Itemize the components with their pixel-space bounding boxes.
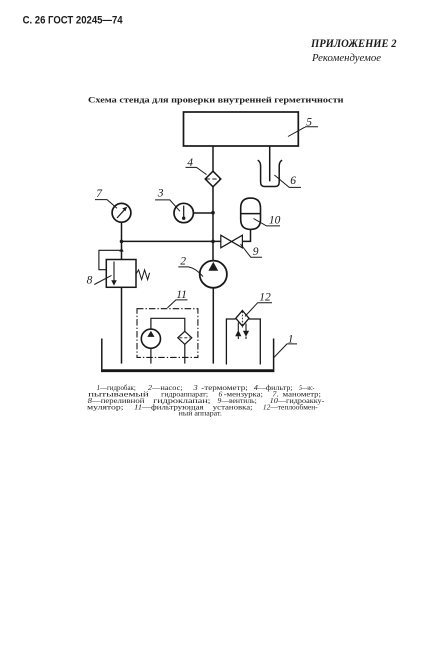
label 4	[187, 157, 193, 169]
heat exchanger H12	[236, 311, 249, 327]
wire rect5 to filter4	[212, 146, 214, 171]
arrows of H12	[237, 323, 239, 340]
label 1	[288, 334, 294, 346]
pump M2	[200, 261, 227, 288]
pressure gauge P7	[112, 203, 131, 222]
wire relief valve to tank	[121, 287, 123, 363]
svg-text:7: 7	[96, 188, 103, 200]
legend text	[87, 383, 325, 418]
label 7	[96, 188, 103, 200]
svg-text:8: 8	[87, 275, 93, 287]
svg-text:ПРИЛОЖЕНИЕ 2: ПРИЛОЖЕНИЕ 2	[310, 38, 397, 50]
label 3	[157, 187, 164, 199]
svg-text:2: 2	[180, 255, 186, 267]
pump M11	[141, 329, 160, 348]
label 9	[253, 246, 259, 258]
wire rect5 to mensurka	[269, 146, 271, 181]
filter F11	[178, 331, 192, 344]
label 10	[269, 214, 281, 226]
svg-text:10: 10	[269, 214, 281, 226]
wire filter11 to tank	[184, 344, 186, 363]
label 8	[87, 275, 93, 287]
accumulator A10	[241, 198, 261, 229]
wire gauge down	[121, 223, 123, 242]
svg-text:12: 12	[259, 291, 271, 303]
svg-text:6: 6	[290, 175, 296, 187]
thermometer U3	[174, 203, 193, 222]
wire horizontal main	[122, 240, 222, 242]
wire pump11 to filter11	[151, 318, 185, 331]
pilot line of R8	[99, 250, 122, 269]
tested apparatus box 5	[184, 112, 299, 146]
svg-text:Схема стенда для проверки внут: Схема стенда для проверки внутренней гер…	[88, 94, 344, 104]
filtering unit box 11	[137, 309, 198, 358]
svg-text:мулятор;: мулятор;	[87, 402, 124, 411]
label 11	[176, 289, 187, 301]
label 2	[180, 255, 186, 267]
wire filter4 down to pump2	[212, 187, 214, 261]
node left junction	[120, 240, 124, 244]
measuring cup 6	[258, 160, 282, 186]
wire pump11 to tank	[150, 348, 152, 363]
label 6	[290, 175, 296, 187]
wire valve to accumulator	[242, 229, 250, 241]
wire thermometer to main line	[193, 212, 213, 214]
svg-text:ный аппарат.: ный аппарат.	[179, 409, 222, 418]
label 12	[259, 291, 271, 303]
wire pump to tank	[212, 288, 214, 364]
svg-text:3: 3	[157, 187, 164, 199]
node main junction	[211, 240, 215, 244]
wire left branch to relief valve	[121, 241, 123, 259]
svg-text:12—теплообмен-: 12—теплообмен-	[263, 402, 318, 411]
svg-text:9: 9	[253, 246, 259, 258]
filter F4	[205, 171, 221, 187]
svg-text:С. 26 ГОСТ 20245—74: С. 26 ГОСТ 20245—74	[23, 14, 124, 26]
relief valve R8	[106, 260, 136, 288]
spring of R8	[136, 270, 150, 280]
heat exchanger compartment	[226, 319, 260, 365]
valve V9	[221, 235, 243, 248]
svg-text:Рекомендуемое: Рекомендуемое	[311, 53, 381, 64]
tank T1	[101, 339, 103, 370]
node thermometer junction	[211, 211, 215, 215]
label 5	[306, 116, 312, 128]
